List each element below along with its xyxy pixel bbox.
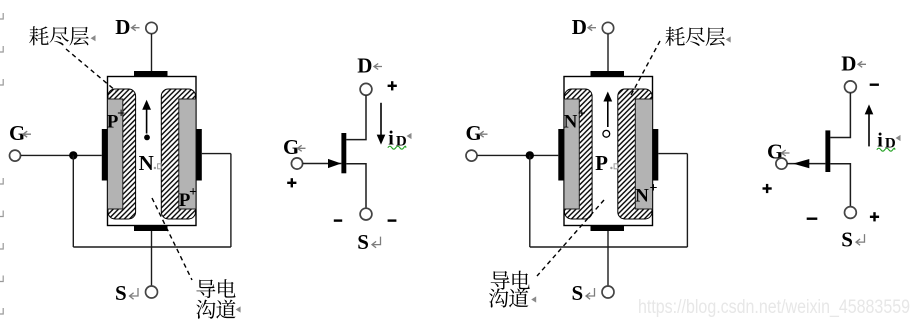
svg-text:https://blog.csdn.net/weixin_4: https://blog.csdn.net/weixin_45883559 — [638, 296, 910, 318]
wire loop right side up — [686, 154, 688, 247]
wire gate — [787, 163, 825, 165]
leader line to depletion layer — [631, 41, 661, 96]
svg-text:S: S — [572, 281, 584, 305]
svg-text:+: + — [578, 107, 586, 122]
terminal S circle — [845, 207, 857, 219]
channel bar — [341, 133, 346, 173]
format mark after S — [586, 288, 595, 299]
svg-text:N: N — [564, 111, 578, 132]
svg-text:S: S — [841, 227, 853, 251]
wire drain — [830, 93, 850, 138]
gate region left (gray) — [564, 99, 579, 209]
svg-text:+: + — [189, 185, 197, 200]
wire bottom contact to S — [151, 231, 153, 286]
format mark after S — [130, 288, 139, 299]
plus sign right of S — [873, 212, 875, 221]
label: conductive channel (dao dian gou dao) — [196, 279, 215, 298]
svg-text:D: D — [841, 51, 856, 75]
label: depletion layer (hao jin ceng) — [29, 26, 49, 45]
terminal S circle — [360, 208, 372, 220]
minus sign near D — [870, 84, 879, 86]
svg-text:S: S — [115, 281, 127, 305]
depletion layer hatch left — [565, 89, 593, 219]
svg-text:G: G — [9, 121, 25, 145]
wire loop bottom — [530, 246, 688, 248]
plus sign near G — [766, 184, 768, 193]
format mark after D — [132, 25, 140, 31]
minus sign right of S — [388, 219, 397, 221]
terminal D circle — [845, 81, 857, 93]
gate arrow (pointing in, N-channel) — [328, 159, 341, 168]
wire D to top contact — [607, 34, 609, 71]
terminal S circle — [602, 286, 614, 298]
wire loop right side up — [230, 154, 232, 247]
plus sign near G — [291, 178, 293, 187]
wire G to left gate bar — [477, 154, 558, 156]
wire loop to right gate bar — [202, 153, 231, 155]
svg-text:N: N — [635, 185, 649, 206]
wire source — [830, 164, 850, 207]
wire G to left gate bar — [21, 154, 102, 156]
svg-text:G: G — [283, 135, 299, 159]
terminal S circle — [146, 286, 158, 298]
channel dot — [144, 135, 150, 141]
svg-text:+: + — [650, 181, 658, 196]
terminal G circle — [776, 158, 787, 169]
wire bottom contact to S — [607, 231, 609, 286]
channel bar — [825, 130, 830, 172]
svg-text:G: G — [466, 121, 482, 145]
format mark after D — [588, 25, 596, 31]
bottom contact bar (source electrode) — [591, 226, 625, 232]
wire drain — [346, 95, 366, 139]
body outline rectangle — [108, 77, 197, 226]
format marks after P — [610, 167, 612, 169]
svg-text:N: N — [139, 151, 154, 175]
gate electrode bar right — [196, 129, 202, 181]
gate electrode bar left — [558, 129, 564, 181]
left margin format marks — [0, 13, 3, 19]
wire loop junction to bottom — [529, 155, 531, 247]
gate electrode bar left — [102, 129, 108, 181]
svg-text:+: + — [117, 107, 125, 122]
spellcheck squiggle under iD — [877, 148, 895, 151]
gate region right (gray) — [179, 99, 196, 209]
format mark after G — [480, 131, 488, 137]
terminal D circle — [146, 22, 157, 33]
svg-text:D: D — [357, 54, 372, 78]
body outline rectangle — [564, 77, 653, 226]
terminal G circle — [10, 150, 21, 161]
terminal D circle — [360, 83, 372, 95]
format mark after G — [23, 131, 31, 137]
leader line to channel — [537, 200, 604, 276]
minus sign left of S — [334, 219, 342, 221]
label: depletion layer (hao jin ceng) — [665, 27, 685, 46]
svg-text:D: D — [115, 15, 130, 39]
wire gate — [303, 163, 342, 165]
minus sign left of S — [807, 218, 818, 220]
wire loop bottom — [73, 246, 231, 248]
gate region left (gray) — [108, 99, 123, 209]
format marks after N — [154, 167, 156, 169]
leader line to channel — [152, 198, 192, 280]
gate arrow (pointing out, P-channel) — [793, 159, 809, 168]
svg-text:D: D — [572, 15, 587, 39]
depletion layer hatch left — [108, 89, 136, 219]
svg-text:S: S — [357, 230, 369, 254]
top contact bar (drain electrode) — [134, 71, 168, 77]
wire loop junction to bottom — [72, 155, 74, 247]
depletion layer hatch right — [161, 89, 195, 219]
junction dot on gate wire — [526, 151, 534, 159]
plus sign near D — [391, 81, 393, 90]
spellcheck squiggle under iD — [388, 146, 406, 149]
terminal G circle — [466, 150, 477, 161]
wire D to top contact — [151, 34, 153, 71]
terminal D circle — [602, 22, 613, 33]
depletion layer hatch right — [618, 89, 652, 219]
gate electrode bar right — [653, 129, 659, 181]
bottom contact bar (source electrode) — [134, 226, 168, 232]
leader line to depletion layer — [66, 49, 116, 91]
svg-text:P: P — [595, 151, 608, 175]
channel current arrow — [607, 101, 609, 128]
iD current arrow (up) — [868, 113, 870, 146]
iD current arrow (down) — [380, 103, 382, 136]
terminal G circle — [291, 158, 302, 169]
channel current arrow — [146, 109, 148, 134]
junction dot on gate wire — [69, 151, 77, 159]
wire loop to right gate bar — [658, 153, 687, 155]
wire source — [346, 164, 366, 208]
channel small circle — [603, 130, 610, 137]
label: conductive channel (dao dian gou dao) — [491, 271, 510, 290]
gate region right (gray) — [635, 99, 652, 209]
top contact bar (drain electrode) — [591, 71, 625, 77]
